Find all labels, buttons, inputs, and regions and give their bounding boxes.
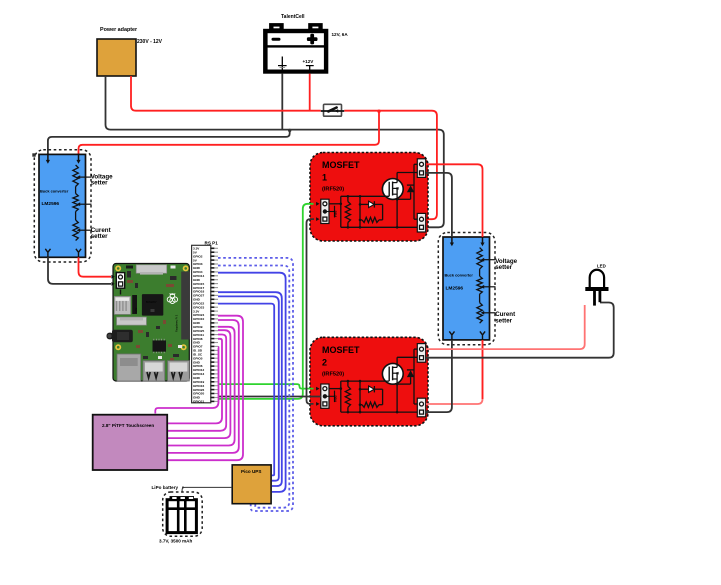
wire black buck1 OUT- to Pi GND [48, 257, 111, 284]
wire blue dashed GPIO to UPS 5 [218, 258, 293, 511]
wire red MOSFET2 OUT+ to LED anode [426, 305, 585, 349]
svg-text:2: 2 [322, 357, 327, 367]
svg-text:MOSFET: MOSFET [322, 345, 360, 355]
connector P1 GPIO header strip [192, 245, 218, 403]
LED D1 [585, 270, 608, 306]
connector J1 Pi power header [116, 273, 124, 295]
svg-text:setter: setter [91, 180, 108, 187]
wire red battery positive drop [309, 74, 311, 111]
UPS module Pico UPS [232, 465, 271, 504]
wire magenta GPIO to touchscreen 4 [168, 330, 230, 438]
wire magenta GPIO to touchscreen 1 [168, 316, 243, 461]
wire black buck2 OUT- to MOSFET2 V- [426, 340, 452, 412]
wire magenta GPIO to touchscreen 3 [168, 327, 235, 446]
svg-text:LiPo battery: LiPo battery [152, 485, 179, 490]
buck converter U1 LM2596 [32, 150, 91, 262]
MOSFET module Q1 (IRF520) [310, 153, 428, 242]
svg-text:BCM2837: BCM2837 [146, 301, 157, 304]
svg-text:Vdd: Vdd [334, 211, 338, 218]
svg-text:MOSFET: MOSFET [322, 160, 360, 170]
svg-text:+12V: +12V [303, 59, 315, 64]
svg-text:GPIO21: GPIO21 [193, 400, 204, 404]
svg-text:Power adapter: Power adapter [100, 27, 138, 33]
svg-text:RS P1: RS P1 [205, 241, 219, 246]
svg-text:setter: setter [495, 264, 512, 271]
wire blue dashed GPIO to UPS 6 [218, 266, 289, 508]
wire red buck1 OUT+ to Pi 5V [79, 257, 112, 276]
svg-text:12V, 6A: 12V, 6A [332, 32, 349, 37]
wire red buck2 OUT+ to MOSFET2 V+ [426, 340, 483, 404]
wire blue GPIO to UPS 4 [218, 304, 274, 476]
wire blue GPIO to UPS 2 [218, 292, 282, 486]
junction black bus [288, 129, 291, 132]
touchscreen display 2.8in PiTFT [93, 415, 168, 470]
svg-text:LM2596: LM2596 [42, 201, 60, 207]
battery BT1 TalentCell [263, 23, 328, 74]
wire LiPo battery to UPS [182, 487, 232, 492]
wire blue GPIO to UPS 1 [218, 273, 286, 492]
wire black GPIO GND to MOSFET2 pin2 [218, 396, 321, 398]
svg-text:230V - 12V: 230V - 12V [137, 39, 163, 45]
wire magenta GPIO to touchscreen 5 [168, 335, 226, 431]
pin arrows MOSFET inputs [316, 202, 319, 406]
wire red buck2 OUT+ drop [482, 340, 484, 399]
wire black branch to buck converter 1 IN- [48, 130, 290, 155]
svg-text:(IRF520): (IRF520) [322, 371, 344, 377]
junction MOSFET2 V- [425, 411, 428, 414]
svg-text:Pico UPS: Pico UPS [241, 469, 261, 474]
svg-text:TalentCell: TalentCell [281, 14, 305, 20]
svg-text:setter: setter [91, 233, 108, 240]
svg-text:setter: setter [495, 318, 512, 325]
wire magenta GPIO to touchscreen 2 [168, 320, 239, 453]
svg-text:Raspberry Pi 3: Raspberry Pi 3 [175, 314, 179, 332]
wire black MOSFET1 OUT- to buck2 IN- [426, 173, 452, 237]
svg-text:2.8" PiTFT Touchscreen: 2.8" PiTFT Touchscreen [102, 423, 154, 428]
wire red from power adapter [131, 76, 321, 111]
wire magenta GPIO to touchscreen 7 [155, 347, 218, 414]
svg-text:RAM: RAM [135, 308, 138, 313]
wire red MOSFET1 OUT+ to buck2 IN+ [426, 164, 483, 237]
MOSFET module Q2 (IRF520) [310, 337, 428, 426]
wire black from power adapter [106, 76, 444, 227]
svg-text:LED: LED [597, 264, 606, 269]
wire black battery negative drop [281, 74, 283, 130]
wire green GPIO to MOSFET1 SIG [218, 204, 314, 399]
battery BT2 LiPo [163, 492, 203, 536]
svg-text:1: 1 [322, 173, 327, 183]
wire magenta GPIO to touchscreen 6 [168, 339, 222, 424]
buck converter U2 LM2596 [438, 233, 495, 345]
svg-text:3.7V, 3500 mAh: 3.7V, 3500 mAh [159, 539, 192, 544]
svg-text:Vdd: Vdd [334, 396, 338, 403]
wire black MOSFET2 OUT- to LED cathode [426, 303, 614, 358]
wire black MOSFET1 GND to MOSFET2 GND [307, 219, 315, 404]
wire red after switch to MOSFET 1 V+ [344, 111, 437, 220]
junction red bus [377, 110, 380, 113]
Raspberry Pi board [107, 264, 190, 382]
switch S1 [321, 104, 344, 116]
wire green GPIO to MOSFET2 SIG [218, 384, 314, 389]
wire red branch to buck converter 1 IN+ [79, 111, 380, 155]
svg-text:Buck converter: Buck converter [40, 189, 69, 194]
svg-text:Buck converter: Buck converter [445, 273, 474, 278]
wire blue GPIO to UPS 3 [218, 296, 279, 480]
svg-text:(IRF520): (IRF520) [322, 187, 344, 193]
power adapter PS1 [97, 27, 138, 76]
svg-text:LM2596: LM2596 [446, 286, 464, 292]
